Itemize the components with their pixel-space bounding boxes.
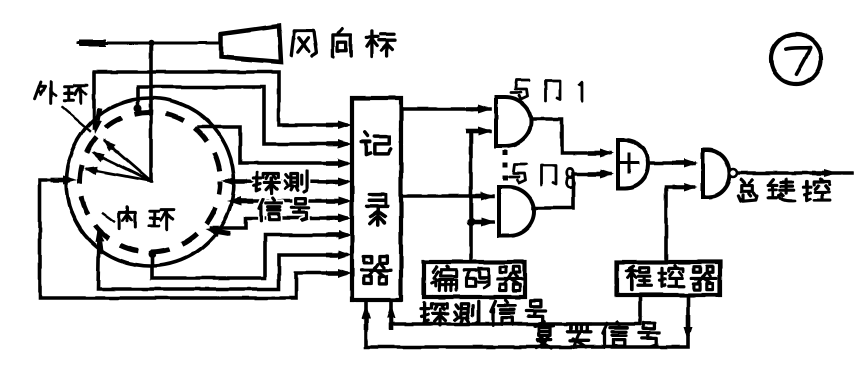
- wire input 1: ring NW point up-over to recorder, arrow into ring: [94, 72, 346, 128]
- label 编码器: [432, 266, 457, 290]
- AND gate U1 (与门1): [496, 97, 531, 146]
- wire OR gate output to NAND gate top input: [648, 161, 694, 165]
- label 外环 (outer ring) with leader line: [35, 82, 56, 104]
- wiper fan arrow 1 from center: [105, 141, 151, 181]
- overlay label 探测 (probe signal) with white outline halo: [253, 172, 278, 193]
- label 复要信号 (repeat signal): [535, 322, 553, 348]
- wire input 4: ring E point to recorder, arrow into ring: [227, 181, 346, 182]
- wire AND gate 8 output to OR gate bottom input: [533, 174, 610, 208]
- wiper fan arrow 2 from center: [94, 153, 151, 181]
- wire NAND output line 总键控: [739, 171, 852, 175]
- label 器 (recorder char 3): [361, 256, 391, 284]
- overlay label 信号 with white outline halo: [260, 198, 282, 221]
- wire encoder detect-signal line to recorder bottom: [391, 295, 640, 324]
- wire input 2: ring N point (junction dot) over to recorder: [134, 104, 142, 112]
- wire program controller to NAND gate bottom input: [666, 187, 694, 262]
- AND gate U8 (与门8): [499, 187, 534, 236]
- outer ring circle (selsyn disc): [66, 98, 234, 266]
- inner dashed ring: [80, 112, 220, 252]
- wire input 9: ring W point around left and bottom to recorder, arrow into ring: [40, 180, 346, 298]
- wire recorder output to AND gate 8 top input: [401, 194, 493, 198]
- label 探测信号 (detection signal): [421, 303, 448, 326]
- label 内环 (inner ring) with leader tick: [103, 213, 114, 221]
- dotted line between gate 1 and gate 8: [503, 150, 508, 184]
- label 程控器: [626, 266, 651, 290]
- wire program controller repeat-signal line to recorder bottom: [366, 295, 688, 347]
- wire to AND gate 1 bottom input: [471, 129, 490, 133]
- wire input 8: ring SW point under disc to recorder, arrow into ring: [98, 233, 346, 289]
- wire input 7: ring S point (junction dot) under disc to recorder: [148, 250, 156, 258]
- wire vertical from shaft down to disc center: [149, 43, 153, 181]
- wire horizontal wind-vane shaft line: [78, 42, 220, 45]
- NAND gate with inversion bubble: [703, 150, 730, 197]
- label 风向标 (wind vane): [291, 31, 316, 56]
- OR gate (adder +): [618, 140, 648, 188]
- wire input 5: stub with left arrow to recorder: [233, 199, 346, 203]
- plus sign inside OR gate: [620, 162, 638, 165]
- figure number 7 in circle: [771, 34, 821, 84]
- program controller box 程控器: [617, 262, 720, 295]
- wind vane (anemometer vane) trapezoid: [221, 26, 281, 62]
- wire input 3: ring NE point to recorder: [199, 127, 346, 163]
- node T junction on shaft at vertical drop: [148, 40, 154, 46]
- wire input 6: ring SE point to recorder, arrow into ring: [211, 218, 346, 228]
- label 记 (recorder char 1): [361, 132, 391, 154]
- node junction dot at AND gate 8 bottom input: [467, 218, 475, 226]
- wire encoder bus vertical to AND gate inputs: [469, 131, 473, 262]
- wire to AND gate 8 bottom input: [471, 220, 493, 224]
- wire AND gate 1 output to OR gate top input: [531, 119, 610, 153]
- wire recorder output to AND gate 1 top input: [401, 107, 490, 111]
- wiper fan arrow 3 from center: [87, 169, 151, 181]
- label 与门1: [511, 80, 529, 99]
- label 总键控 (master keying): [738, 180, 757, 201]
- recorder box: [352, 98, 401, 300]
- label 录 (recorder char 2): [367, 194, 388, 225]
- label 与门8: [509, 164, 527, 183]
- encoder box 编码器: [424, 262, 525, 297]
